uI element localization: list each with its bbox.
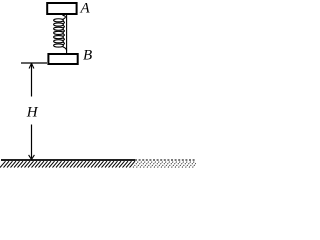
spring coil connector 4-5 xyxy=(63,34,64,36)
svg-text:A: A xyxy=(80,1,91,17)
arrowhead up xyxy=(29,63,34,68)
spring coil loop 6 xyxy=(54,40,64,43)
block A xyxy=(47,3,76,14)
arrowhead down xyxy=(29,155,35,160)
spring coil connector 2-3 xyxy=(63,26,64,28)
dimension line lower segment xyxy=(31,125,33,159)
spring coil connector 6-7 xyxy=(63,42,64,44)
spring coil connector 3-4 xyxy=(63,30,64,32)
svg-text:B: B xyxy=(83,48,92,64)
spring coil loop 4 xyxy=(54,31,64,34)
spring coil connector 1-2 xyxy=(63,21,64,23)
spring coil connector 5-6 xyxy=(63,38,64,40)
reference line from block B xyxy=(21,62,47,64)
spring xyxy=(54,15,67,53)
spring coil loop 3 xyxy=(54,27,64,30)
spring coil loop 5 xyxy=(54,36,64,39)
spring coil loop 1 xyxy=(54,19,64,22)
block B xyxy=(48,54,77,64)
spring bottom hook xyxy=(63,47,67,51)
spring coil loop 2 xyxy=(54,23,64,26)
ground hatching faded right part xyxy=(133,161,196,167)
dimension line upper segment xyxy=(31,64,33,97)
spring coil loop 7 xyxy=(54,44,64,47)
spring spine rod xyxy=(66,15,68,53)
spring top hook xyxy=(63,15,66,19)
ground hatching solid left part xyxy=(0,161,135,167)
ground line solid left part xyxy=(1,159,135,161)
ground line faded right part xyxy=(135,159,196,161)
svg-text:H: H xyxy=(26,105,39,121)
